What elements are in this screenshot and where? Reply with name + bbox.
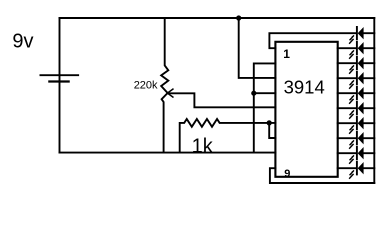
LED D5 xyxy=(338,87,375,103)
LED D2 xyxy=(338,42,375,58)
potentiometer R1 wiper arrow xyxy=(167,89,173,97)
wire pin 4 to ground net xyxy=(254,92,276,94)
LED D8 xyxy=(338,132,375,148)
svg-text:9v: 9v xyxy=(12,31,33,53)
battery B1 vertical lead xyxy=(59,18,61,153)
LED D7 xyxy=(338,117,375,133)
wire top rail V+ xyxy=(60,17,375,19)
wire pin 1 to LED D1 xyxy=(269,33,356,48)
LED D6 xyxy=(338,102,375,118)
wire wiper to pin 5 xyxy=(167,93,275,107)
LED D1 xyxy=(350,27,375,43)
svg-text:3914: 3914 xyxy=(284,76,325,97)
svg-text:1k: 1k xyxy=(192,136,214,158)
LED D10 xyxy=(338,162,375,178)
wire right LED anode bus xyxy=(373,18,375,183)
wire V+ to pin 3 xyxy=(239,18,276,78)
LED D3 xyxy=(338,57,375,73)
junction dot pin 4 xyxy=(251,91,256,96)
LED D4 xyxy=(338,72,375,88)
battery B1 negative plate xyxy=(49,80,68,82)
battery B1 positive plate xyxy=(40,74,78,76)
wire bottom ground rail xyxy=(60,152,276,154)
junction dot pins 6-7 xyxy=(267,120,272,125)
svg-text:220k: 220k xyxy=(134,79,158,91)
wire pin 9 to V+ bus (bar mode) xyxy=(270,168,374,183)
svg-text:9: 9 xyxy=(284,168,290,180)
svg-text:1: 1 xyxy=(283,47,290,61)
op-amp U1 LM3914 body xyxy=(275,42,337,177)
potentiometer R1 220k body xyxy=(161,18,168,153)
resistor R2 1k body xyxy=(180,119,276,153)
wire pin 2 to ground xyxy=(254,63,276,152)
LED D9 xyxy=(338,147,375,163)
wire pin 6 to pin 7 xyxy=(269,123,275,138)
junction dot top rail xyxy=(236,15,241,20)
